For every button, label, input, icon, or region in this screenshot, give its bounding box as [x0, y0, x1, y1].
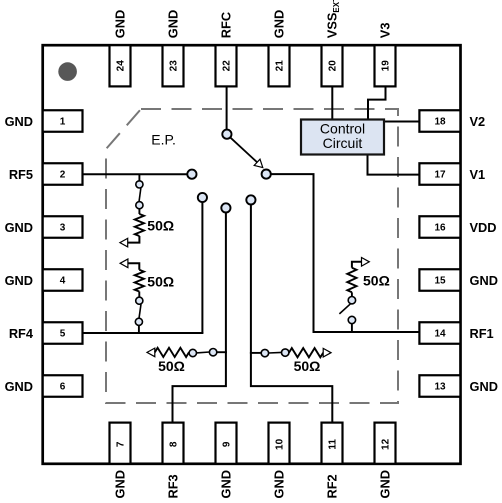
wire switch to RF4 line [138, 325, 140, 333]
wire RFC pin 22 to switch pole [226, 87, 228, 131]
pin 11 (RF2) [322, 423, 343, 499]
svg-text:GND: GND [113, 470, 128, 498]
switch RF4 shunt arm [139, 304, 141, 318]
switch RF5 shunt contact (top) [136, 181, 143, 188]
resistor 50 ohm RF2 shunt [289, 348, 323, 357]
wire resistor to switch [351, 292, 353, 296]
svg-text:23: 23 [168, 60, 179, 72]
node RF4 throw [198, 193, 207, 202]
svg-text:9: 9 [221, 441, 232, 447]
pin 1 index marker dot [58, 62, 77, 81]
wire RF5 pin 2 to throw [83, 173, 188, 175]
pin 19 (V3) [375, 23, 396, 87]
pin 12 (GND) [375, 423, 396, 499]
wire RF3 throw to pin 8 [173, 213, 226, 423]
svg-text:7: 7 [115, 441, 126, 447]
svg-text:RF2: RF2 [325, 474, 340, 498]
pin 2 (RF5) [9, 163, 83, 185]
svg-text:5: 5 [60, 329, 66, 340]
pin 8 (RF3) [163, 423, 184, 499]
switch RF4 shunt contact (bottom) [135, 318, 142, 325]
svg-text:19: 19 [380, 60, 391, 72]
ground arrow RF1 shunt termination [362, 258, 370, 267]
pin 17 (V1) [419, 163, 485, 185]
svg-text:RF3: RF3 [166, 474, 181, 498]
svg-text:22: 22 [221, 60, 232, 72]
wire switch to RF3 line [217, 351, 227, 353]
svg-text:24: 24 [115, 60, 126, 72]
svg-text:GND: GND [272, 470, 287, 498]
svg-text:GND: GND [113, 10, 128, 38]
node RFC switch pole [222, 130, 231, 139]
pin 9 (GND) [216, 423, 237, 499]
resistor 50 ohm RF3 shunt [155, 348, 189, 357]
svg-text:14: 14 [434, 329, 446, 340]
svg-text:RF4: RF4 [9, 326, 34, 341]
pin 6 (GND) [5, 375, 83, 397]
pin 22 (RFC) [216, 12, 237, 87]
switch RF3 shunt contact (right) [209, 349, 216, 356]
svg-text:12: 12 [380, 438, 391, 450]
pin 13 (GND) [419, 375, 498, 397]
pin 14 (RF1) [419, 322, 493, 344]
pin 24 (GND) [110, 10, 131, 87]
wire RF4 throw stub down [201, 202, 203, 333]
switch RF2 shunt contact (right) [282, 349, 289, 356]
svg-text:1: 1 [60, 117, 66, 128]
control circuit block U1 [301, 120, 384, 155]
resistor 50 ohm RF1 shunt [347, 268, 356, 293]
svg-text:E.P.: E.P. [151, 131, 176, 147]
svg-text:GND: GND [470, 273, 498, 288]
node RF2 throw [246, 195, 255, 204]
wire resistor to switch [138, 292, 140, 298]
svg-text:GND: GND [5, 273, 33, 288]
switch RF1 shunt contact (bottom) [348, 316, 355, 323]
svg-text:50Ω: 50Ω [147, 218, 174, 234]
switch RF3 shunt contact (left) [189, 349, 196, 356]
node RF5 throw [187, 170, 196, 179]
svg-text:15: 15 [434, 276, 446, 287]
wire RF2 line to switch [250, 352, 261, 354]
wire control circuit to V2 pin 18 [384, 121, 419, 123]
svg-text:V1: V1 [470, 167, 486, 182]
svg-text:18: 18 [434, 117, 446, 128]
svg-text:6: 6 [60, 382, 66, 393]
ground arrow RF4 shunt termination [120, 259, 128, 268]
node RF3 throw [221, 203, 230, 212]
svg-text:11: 11 [327, 439, 338, 450]
exposed pad E.P. dashed boundary [106, 109, 398, 403]
svg-text:GND: GND [219, 470, 234, 498]
svg-text:50Ω: 50Ω [158, 358, 185, 374]
switch RF5 shunt contact (bottom) [136, 202, 143, 209]
pin 16 (VDD) [419, 216, 496, 238]
svg-text:17: 17 [434, 170, 446, 181]
pin 15 (GND) [419, 269, 498, 291]
ground arrow RF2 shunt termination [323, 348, 331, 357]
wire V3 pin 19 to control circuit [368, 87, 386, 121]
svg-text:V2: V2 [470, 114, 486, 129]
svg-text:16: 16 [434, 223, 446, 234]
svg-text:4: 4 [60, 276, 66, 287]
wire VSS_EXT pin 20 to control circuit [331, 87, 333, 121]
pin 5 (RF4) [9, 322, 83, 344]
resistor 50 ohm RF5 shunt [135, 214, 144, 236]
svg-text:Circuit: Circuit [323, 135, 363, 151]
wire RF2 throw to pin 11 [251, 205, 332, 423]
svg-text:3: 3 [60, 223, 66, 234]
svg-text:GND: GND [5, 379, 33, 394]
svg-text:GND: GND [166, 10, 181, 38]
wire RF4 pin 5 line [83, 332, 204, 334]
svg-text:RFC: RFC [219, 12, 234, 38]
svg-text:GND: GND [378, 470, 393, 498]
wire arrow to resistor [352, 262, 362, 268]
pin 20 (VSS_EXT) [322, 0, 343, 86]
wire control circuit to V1 pin 17 [368, 154, 420, 175]
ground arrow RF3 shunt termination [147, 348, 155, 357]
svg-text:21: 21 [274, 60, 285, 72]
switch RF4 shunt contact (top) [136, 297, 143, 304]
svg-text:RF1: RF1 [470, 326, 494, 341]
pin 10 (GND) [269, 423, 290, 499]
pin 21 (GND) [269, 10, 290, 87]
wire to resistor [138, 209, 140, 214]
wire switch to RF1 line [351, 324, 353, 332]
wire arrow to resistor [128, 263, 139, 270]
svg-text:VDD: VDD [470, 220, 497, 235]
pin 18 (V2) [419, 110, 485, 132]
svg-text:GND: GND [5, 220, 33, 235]
node RF1 throw [262, 170, 271, 179]
pin 3 (GND) [5, 216, 83, 238]
pin 4 (GND) [5, 269, 83, 291]
svg-text:8: 8 [168, 441, 179, 447]
svg-text:RF5: RF5 [9, 167, 33, 182]
svg-text:GND: GND [272, 10, 287, 38]
svg-text:2: 2 [60, 170, 66, 181]
wire resistor to ground arrow [127, 236, 139, 243]
svg-text:GND: GND [5, 114, 33, 129]
svg-text:20: 20 [327, 60, 338, 72]
resistor 50 ohm RF4 shunt [135, 270, 144, 292]
switch RF1 shunt arm (open) [339, 304, 350, 314]
switch RF1 shunt contact (top) [348, 297, 355, 304]
svg-text:V3: V3 [378, 23, 393, 39]
pin 1 (GND) [5, 110, 83, 132]
pin 23 (GND) [163, 10, 184, 87]
svg-text:50Ω: 50Ω [294, 358, 321, 374]
svg-text:50Ω: 50Ω [147, 274, 174, 290]
svg-text:GND: GND [470, 379, 498, 394]
switch RF2 shunt contact (left) [261, 349, 268, 356]
wire RF1 throw to pin 14 [271, 174, 420, 332]
chip package outline [43, 45, 461, 464]
switch RF3 shunt arm [196, 351, 209, 354]
switch RF2 shunt arm [268, 351, 281, 354]
switch RF5 shunt arm [139, 188, 141, 202]
switch SW1 arm (pole to RF1 throw) [230, 137, 263, 167]
svg-text:50Ω: 50Ω [363, 273, 390, 289]
svg-text:13: 13 [434, 382, 446, 393]
pin 7 (GND) [110, 423, 131, 499]
wire RF5 shunt stub from RF5 line [138, 174, 140, 181]
svg-text:10: 10 [274, 438, 285, 450]
ground arrow RF5 shunt termination [120, 238, 128, 247]
